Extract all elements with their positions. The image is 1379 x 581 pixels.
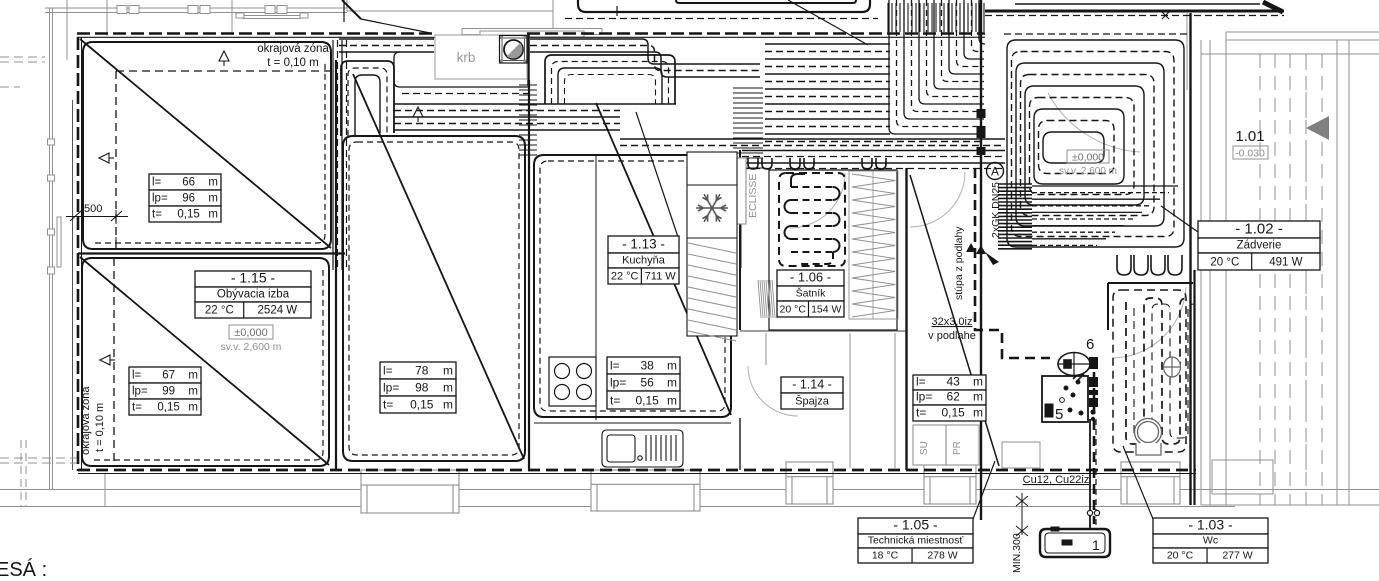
door swing arcs xyxy=(748,93,1186,416)
svg-text:491 W: 491 W xyxy=(1269,257,1302,269)
svg-text:56: 56 xyxy=(640,376,654,390)
svg-text:l=: l= xyxy=(916,375,926,389)
svg-text:711 W: 711 W xyxy=(645,271,677,283)
tank 1 xyxy=(1040,527,1110,557)
svg-text:m: m xyxy=(667,376,677,390)
table zadverie xyxy=(1198,221,1320,271)
svg-text:±0,000: ±0,000 xyxy=(234,327,268,339)
svg-text:m: m xyxy=(443,398,453,412)
svg-text:ECLISSE: ECLISSE xyxy=(747,174,759,218)
svg-text:278 W: 278 W xyxy=(927,550,957,562)
toilet xyxy=(1135,419,1162,456)
table spajza xyxy=(781,377,843,409)
svg-text:43: 43 xyxy=(946,375,960,389)
svg-text:t = 0,10 m: t = 0,10 m xyxy=(267,57,318,69)
svg-text:l=: l= xyxy=(383,364,393,378)
svg-text:okrajová zóna: okrajová zóna xyxy=(257,43,329,55)
svg-text:-0.030: -0.030 xyxy=(1235,148,1265,160)
svg-text:32x3,0iz: 32x3,0iz xyxy=(932,316,973,328)
room top-left diagonal xyxy=(80,39,331,248)
upper-left room corner + diagonal xyxy=(342,0,361,19)
svg-text:0,15: 0,15 xyxy=(177,209,199,221)
svg-text:6: 6 xyxy=(1086,336,1094,353)
room top-left okrajova zona dashed xyxy=(116,71,331,249)
krb niche xyxy=(435,35,527,79)
svg-text:m: m xyxy=(667,359,677,373)
washer and dryer xyxy=(913,420,985,465)
svg-text:lp=: lp= xyxy=(132,386,148,398)
svg-text:Technická miestnosť: Technická miestnosť xyxy=(868,535,965,547)
exterior window bays bottom xyxy=(361,462,1180,513)
riser arrows xyxy=(966,243,999,265)
stove xyxy=(549,357,596,406)
satnik room boundary xyxy=(769,170,897,330)
table room1 values xyxy=(149,174,221,222)
sink xyxy=(602,430,683,467)
svg-text:m: m xyxy=(973,390,983,404)
svg-text:l=: l= xyxy=(132,370,142,382)
svg-text:96: 96 xyxy=(182,193,195,205)
svg-text:Zádverie: Zádverie xyxy=(1237,240,1282,252)
svg-text:m: m xyxy=(973,406,983,420)
svg-text:Cu12, Cu22iz: Cu12, Cu22iz xyxy=(1023,474,1090,486)
heating pipes meander field top xyxy=(333,0,1005,270)
fridge cabinet column xyxy=(687,152,737,336)
room 1.15 okrajova zona dashed xyxy=(113,258,115,466)
svg-text:l=: l= xyxy=(152,177,162,189)
svg-text:20 °C: 20 °C xyxy=(1167,550,1194,562)
svg-text:Wc: Wc xyxy=(1203,535,1218,547)
svg-text:±0,000: ±0,000 xyxy=(1072,152,1104,164)
table middle room values xyxy=(380,362,456,413)
svg-text:lp=: lp= xyxy=(610,376,626,390)
table room 1.15 xyxy=(195,270,311,319)
svg-text:0,15: 0,15 xyxy=(635,394,659,408)
table kitchen values xyxy=(607,357,680,409)
corridor cabinet xyxy=(1002,442,1040,468)
pipes to tank xyxy=(1087,419,1099,529)
svg-text:t=: t= xyxy=(610,394,620,408)
svg-text:t=: t= xyxy=(383,398,393,412)
svg-text:SU: SU xyxy=(919,441,930,455)
thick dashed riser pipes xyxy=(975,168,1094,524)
wc heating meander xyxy=(1113,290,1194,452)
cabinet diagonal hatch xyxy=(688,243,736,341)
svg-text:lp=: lp= xyxy=(383,381,399,395)
dimension 500 xyxy=(66,210,128,250)
text okrajova zona left vertical xyxy=(80,386,106,455)
room 1.15 heating loop xyxy=(82,258,329,466)
svg-text:154 W: 154 W xyxy=(811,304,841,316)
svg-text:22 °C: 22 °C xyxy=(205,305,234,317)
svg-text:98: 98 xyxy=(415,381,429,395)
svg-text:l=: l= xyxy=(610,359,620,373)
eclisse pocket door xyxy=(737,158,746,268)
table satnik xyxy=(777,270,844,318)
pipe sleeves on section line xyxy=(977,109,986,155)
wardrobe hatch xyxy=(849,171,898,319)
pipe crossing hatches xyxy=(441,3,984,168)
svg-text:m: m xyxy=(188,402,198,414)
table room 1.15 values xyxy=(129,367,201,415)
svg-text:Šatník: Šatník xyxy=(796,287,827,300)
svg-text:lp=: lp= xyxy=(916,390,932,404)
svg-text:krb: krb xyxy=(457,50,476,65)
svg-text:- 1.06 -: - 1.06 - xyxy=(790,270,831,285)
svg-text:- 1.03 -: - 1.03 - xyxy=(1188,517,1233,533)
wc sink xyxy=(1164,357,1181,377)
spajza partitions xyxy=(766,333,895,468)
svg-text:m: m xyxy=(188,370,198,382)
svg-text:m: m xyxy=(208,177,218,189)
gray filled arrow xyxy=(1306,116,1329,140)
stairs hatch xyxy=(758,280,775,318)
kitchen counter edge xyxy=(595,155,597,420)
table kitchen xyxy=(608,236,679,284)
svg-text:0,15: 0,15 xyxy=(410,398,434,412)
svg-text:lp=: lp= xyxy=(152,193,168,205)
svg-text:t=: t= xyxy=(152,209,162,221)
svg-text:2xGK DN25: 2xGK DN25 xyxy=(990,182,1002,238)
room top-left heating loop xyxy=(83,42,331,249)
svg-text:20 °C: 20 °C xyxy=(780,304,807,316)
zone marker triangles xyxy=(99,51,423,365)
svg-text:PR: PR xyxy=(952,441,963,455)
upper-right room bottom edge xyxy=(1015,3,1260,5)
svg-text:66: 66 xyxy=(182,177,195,189)
corridor pipe run xyxy=(742,151,1005,169)
svg-text:m: m xyxy=(443,364,453,378)
svg-text:20 °C: 20 °C xyxy=(1210,257,1239,269)
svg-text:99: 99 xyxy=(162,386,175,398)
zadverie spiral heating loops xyxy=(1007,40,1184,247)
svg-text:0,15: 0,15 xyxy=(157,402,179,414)
chimney symbol xyxy=(500,36,528,64)
svg-text:18 °C: 18 °C xyxy=(872,550,899,562)
upper rooms partial (cut at top) xyxy=(342,0,1284,34)
manifold connector column xyxy=(1089,357,1098,421)
svg-text:v podlahe: v podlahe xyxy=(928,330,976,342)
svg-text:MIN.300: MIN.300 xyxy=(1011,533,1023,573)
dimension min300 xyxy=(1016,493,1028,536)
table tech room xyxy=(858,517,973,564)
manifold feed lines xyxy=(1032,186,1178,245)
kitchen heating loop xyxy=(534,155,731,417)
svg-text:67: 67 xyxy=(162,370,175,382)
svg-text:Kuchyňa: Kuchyňa xyxy=(622,255,666,267)
section mark A circle xyxy=(987,163,1004,180)
expansion vessel 6 xyxy=(1058,353,1090,376)
svg-text:- 1.05 -: - 1.05 - xyxy=(893,517,938,533)
text 32x30iz xyxy=(928,316,976,342)
svg-text:2524 W: 2524 W xyxy=(258,305,298,317)
svg-text:sv.v. 2,600 m: sv.v. 2,600 m xyxy=(221,341,282,353)
svg-text:Obývacia izba: Obývacia izba xyxy=(217,289,290,301)
building walls xyxy=(77,11,1284,505)
svg-text:m: m xyxy=(208,209,218,221)
svg-text:m: m xyxy=(443,381,453,395)
level mark zadverie xyxy=(1059,150,1117,177)
right garage gray structure xyxy=(1187,13,1379,505)
middle room heating loop xyxy=(343,136,525,461)
svg-text:0,15: 0,15 xyxy=(941,406,965,420)
svg-text:Špajza: Špajza xyxy=(795,395,830,408)
svg-text:- 1.15 -: - 1.15 - xyxy=(231,270,276,286)
kitchen diagonal xyxy=(596,103,731,415)
svg-text:- 1.14 -: - 1.14 - xyxy=(792,378,832,392)
svg-text:m: m xyxy=(973,375,983,389)
table wc xyxy=(1153,517,1268,564)
svg-text:t=: t= xyxy=(132,402,142,414)
tech room diagonal xyxy=(910,175,999,466)
level mark livingroom xyxy=(221,325,282,353)
svg-text:1.01: 1.01 xyxy=(1235,128,1264,145)
svg-text:277 W: 277 W xyxy=(1222,550,1252,562)
manifold dense block xyxy=(998,184,1032,249)
room 1.15 diagonal xyxy=(80,257,329,465)
svg-text:1: 1 xyxy=(1092,537,1100,553)
boiler unit 5 xyxy=(1042,371,1088,422)
svg-text:sv.v. 2,600 m: sv.v. 2,600 m xyxy=(1059,166,1117,177)
svg-text:38: 38 xyxy=(640,359,654,373)
svg-text:A: A xyxy=(991,165,999,179)
svg-text:ESÁ :: ESÁ : xyxy=(0,558,47,576)
svg-text:okrajová zóna: okrajová zóna xyxy=(80,386,92,455)
svg-text:stúpa z podlahy: stúpa z podlahy xyxy=(953,226,965,300)
svg-text:m: m xyxy=(667,394,677,408)
svg-text:m: m xyxy=(208,193,218,205)
svg-text:m: m xyxy=(188,386,198,398)
svg-text:500: 500 xyxy=(84,203,102,215)
svg-text:78: 78 xyxy=(415,364,429,378)
satnik heating meander xyxy=(785,174,840,264)
table tech values xyxy=(913,375,986,422)
pipe sleeve couplers xyxy=(748,158,1182,275)
middle room diagonal xyxy=(353,74,524,459)
site gray top facade line xyxy=(0,0,602,490)
svg-text:- 1.02 -: - 1.02 - xyxy=(1235,221,1283,238)
leader lines xyxy=(636,0,1198,519)
svg-text:t = 0,10 m: t = 0,10 m xyxy=(94,403,106,452)
section line A xyxy=(980,0,982,520)
svg-text:- 1.13 -: - 1.13 - xyxy=(622,237,665,252)
svg-text:t=: t= xyxy=(916,406,926,420)
snowflake symbol xyxy=(696,194,728,222)
svg-text:62: 62 xyxy=(946,390,960,404)
svg-text:22 °C: 22 °C xyxy=(611,271,639,283)
svg-text:5: 5 xyxy=(1055,406,1063,423)
text okrajova zona top xyxy=(257,43,329,69)
